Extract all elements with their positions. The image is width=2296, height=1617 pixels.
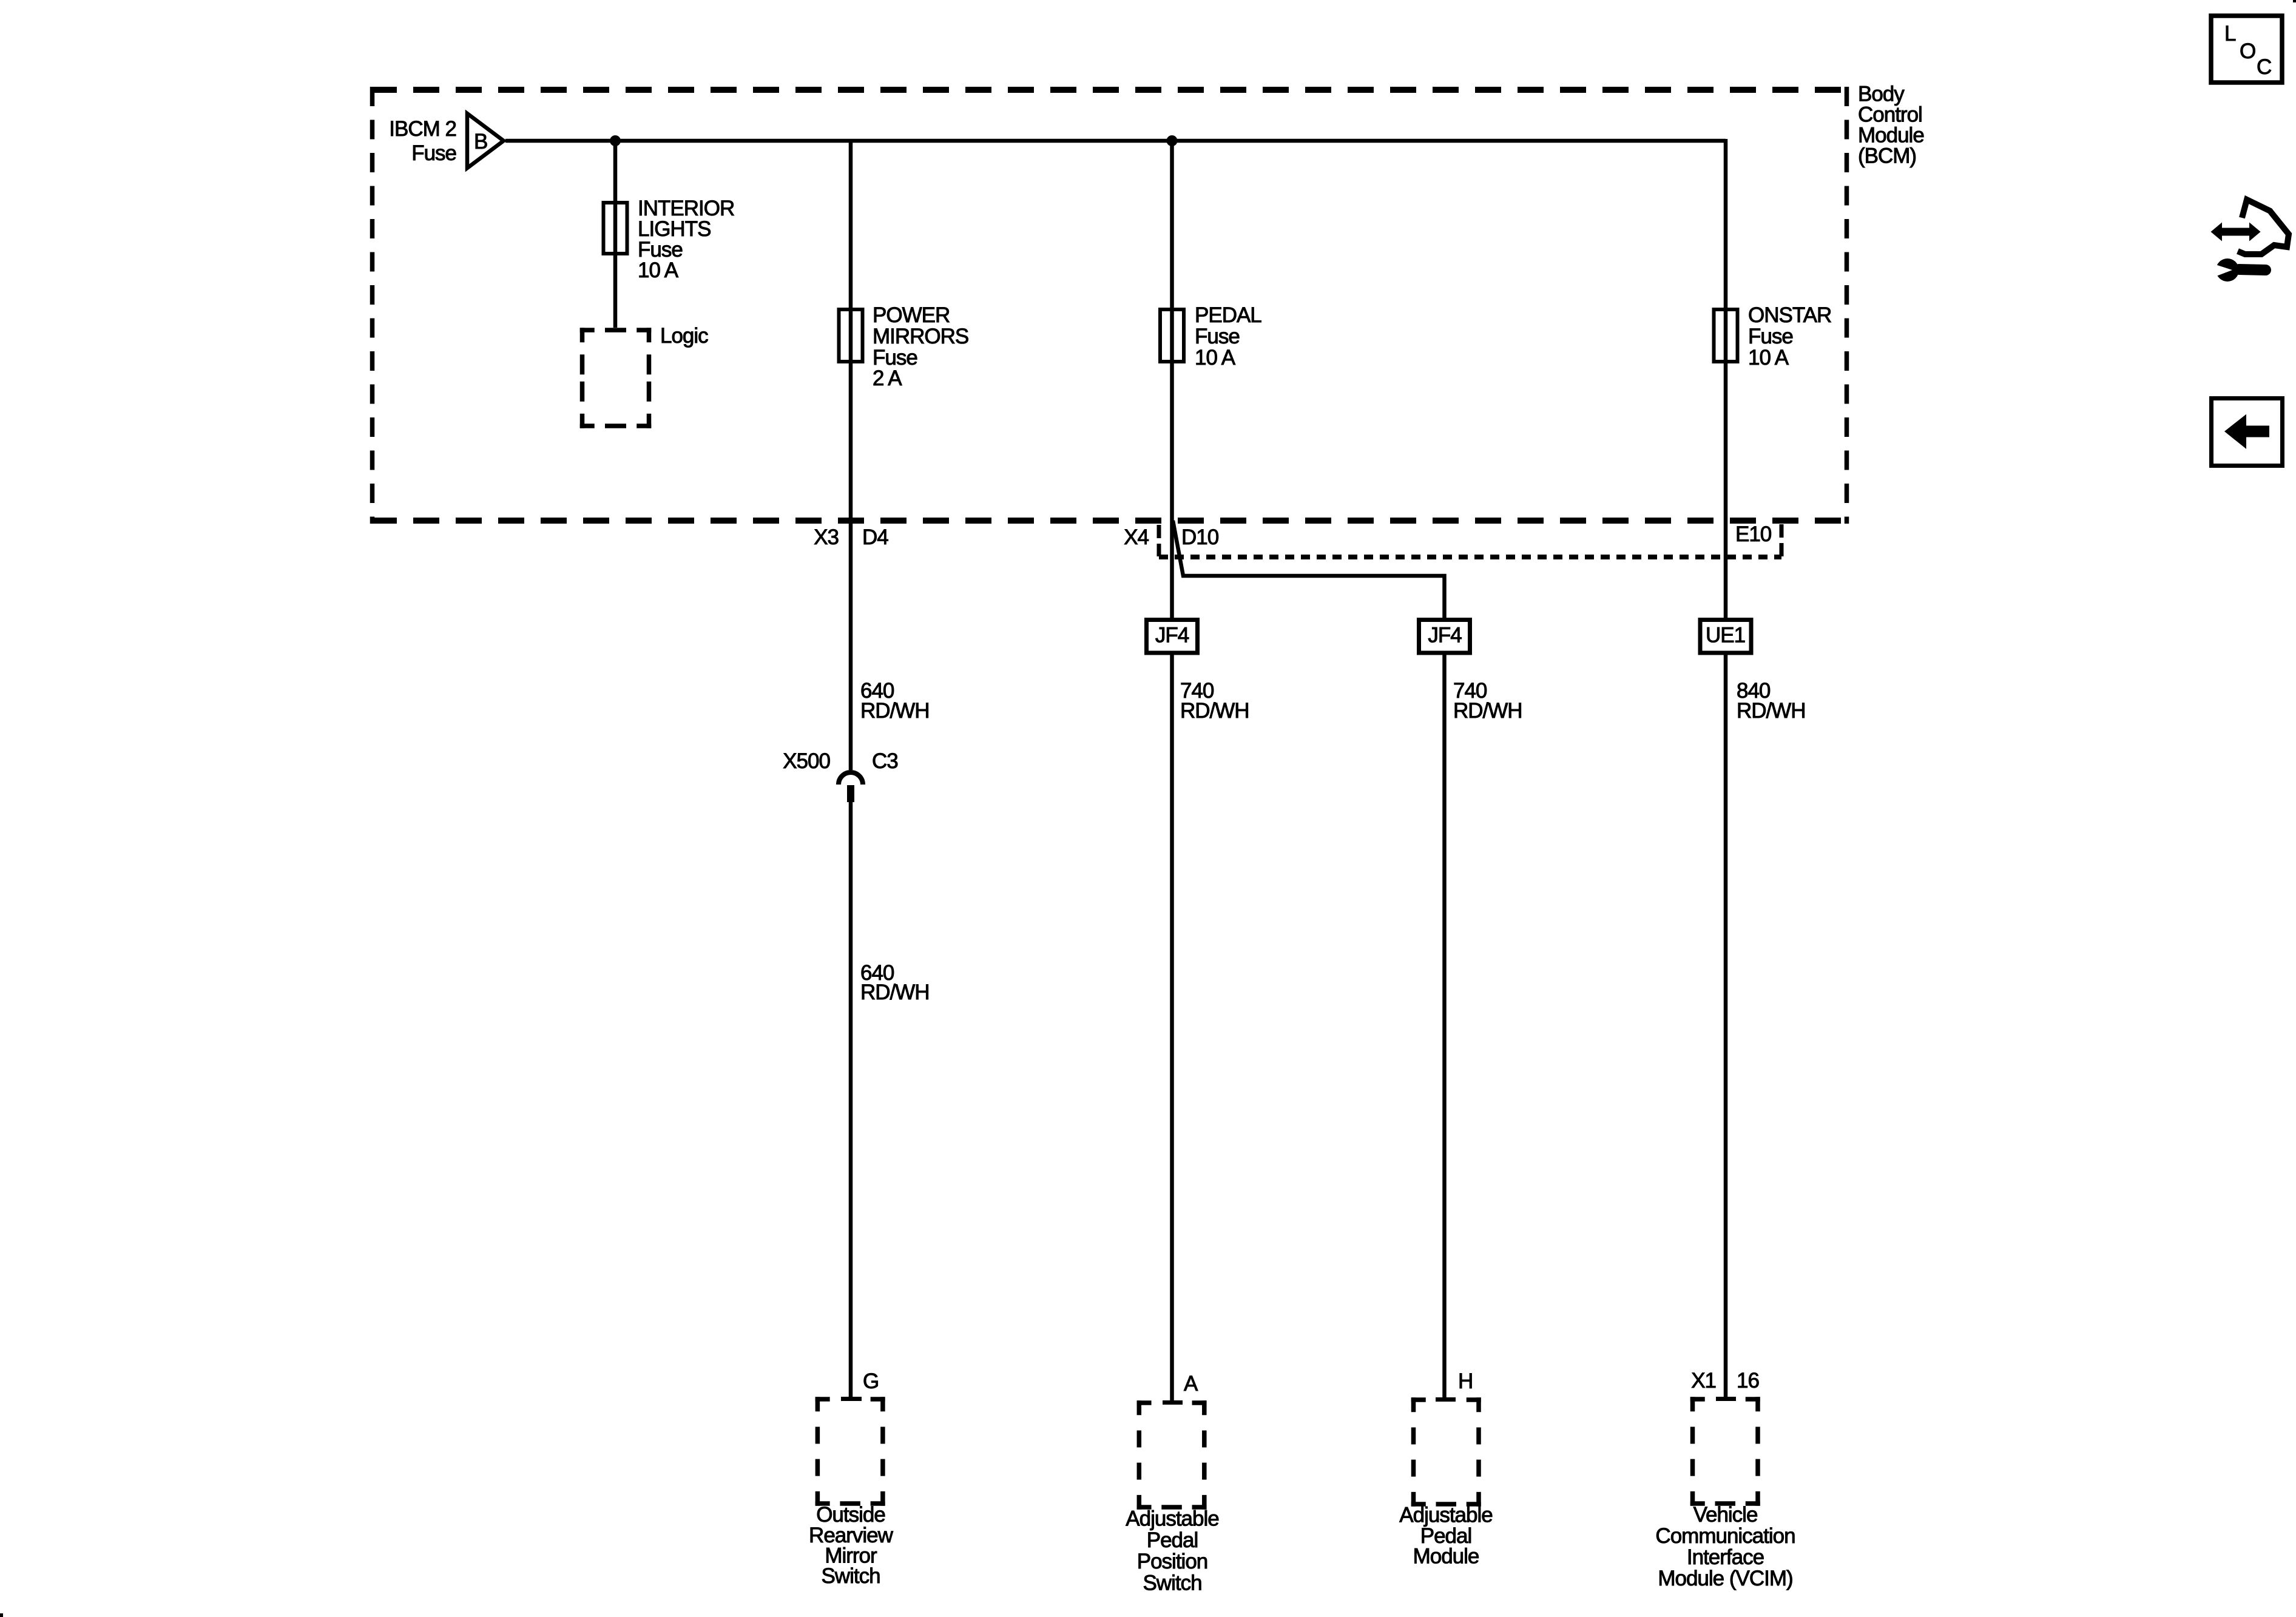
svg-text:RD/WH: RD/WH [1180, 699, 1249, 723]
svg-text:C: C [2257, 55, 2271, 79]
svg-text:(BCM): (BCM) [1858, 144, 1916, 168]
svg-text:10 A: 10 A [1195, 346, 1236, 370]
in-line connector X500 pin C3 [839, 772, 863, 785]
wire: interior lights branch [613, 141, 618, 328]
label INTERIOR LIGHTS Fuse 10 A [638, 197, 734, 282]
junction: pedal branch [1167, 135, 1178, 146]
svg-text:Vehicle: Vehicle [1693, 1503, 1758, 1527]
wire: X500 to mirror switch [849, 802, 853, 1399]
fuse INTERIOR LIGHTS 10 A [604, 203, 627, 254]
label IBCM 2 Fuse [389, 117, 456, 165]
svg-text:MIRRORS: MIRRORS [873, 325, 968, 348]
back arrow icon box [2212, 399, 2283, 466]
logic box (BCM internal logic, dashed) [580, 328, 652, 428]
svg-text:D4: D4 [862, 525, 888, 549]
svg-text:16: 16 [1737, 1369, 1759, 1393]
svg-text:Adjustable: Adjustable [1126, 1507, 1218, 1531]
svg-text:RD/WH: RD/WH [1453, 699, 1522, 723]
BCM outer dashed box [371, 90, 1850, 521]
svg-text:10 A: 10 A [1748, 346, 1789, 370]
svg-text:Switch: Switch [1143, 1571, 1201, 1595]
svg-text:IBCM 2: IBCM 2 [389, 117, 456, 141]
svg-text:Fuse: Fuse [411, 141, 456, 165]
label Logic [660, 324, 708, 348]
connector H + Adjustable Pedal Module [1458, 1369, 1473, 1393]
svg-text:H: H [1458, 1369, 1473, 1393]
connector G + Outside Rearview Mirror Switch [863, 1369, 879, 1393]
splice JF4 (pedal position switch leg) [1147, 620, 1198, 653]
svg-text:O: O [2240, 39, 2255, 63]
fuse ONSTAR 10 A [1714, 309, 1738, 362]
svg-text:PEDAL: PEDAL [1195, 303, 1261, 327]
svg-text:A: A [1184, 1372, 1198, 1396]
LOC icon box [2211, 16, 2282, 83]
svg-text:Communication: Communication [1655, 1524, 1795, 1548]
svg-text:10 A: 10 A [638, 258, 679, 282]
svg-text:JF4: JF4 [1155, 624, 1189, 647]
svg-text:Interface: Interface [1687, 1545, 1764, 1569]
svg-text:X1: X1 [1691, 1369, 1716, 1393]
svg-text:E10: E10 [1735, 522, 1772, 546]
svg-text:Logic: Logic [660, 324, 708, 348]
svg-text:RD/WH: RD/WH [860, 699, 930, 723]
wire label 740 RD/WH (module leg) [1453, 679, 1522, 723]
svg-text:X4: X4 [1124, 525, 1149, 549]
svg-text:RD/WH: RD/WH [860, 981, 930, 1004]
fuse POWER MIRRORS 2 A [839, 309, 863, 362]
splice UE1 [1700, 620, 1751, 653]
connector X3 / D4 labels [814, 525, 888, 549]
svg-text:ONSTAR: ONSTAR [1748, 303, 1831, 327]
wire label 840 RD/WH [1737, 679, 1806, 723]
connector X4 notch (dotted) [1159, 555, 1781, 559]
svg-text:Fuse: Fuse [1195, 325, 1240, 348]
splice JF4 (pedal module leg) [1419, 620, 1470, 653]
wire label 740 RD/WH [1180, 679, 1249, 723]
svg-text:2 A: 2 A [873, 366, 902, 390]
wire: main feed bus [505, 139, 1726, 143]
svg-text:Position: Position [1137, 1550, 1208, 1573]
svg-text:B: B [474, 130, 487, 154]
junction: interior lights branch [610, 135, 621, 146]
label POWER MIRRORS Fuse 2 A [873, 303, 968, 390]
wire: pedal branch vertical [1170, 141, 1174, 1402]
wire: branch to adjustable pedal module [1173, 521, 1445, 1399]
label PEDAL Fuse 10 A [1195, 303, 1261, 370]
svg-text:G: G [863, 1369, 879, 1393]
svg-text:RD/WH: RD/WH [1737, 699, 1806, 723]
svg-text:UE1: UE1 [1706, 624, 1745, 647]
service icon: adjustable pedal glyph with double arrow and wrench [2211, 200, 2289, 282]
svg-text:L: L [2224, 22, 2236, 46]
connector A + Adjustable Pedal Position Switch [1184, 1372, 1198, 1396]
svg-text:Module (VCIM): Module (VCIM) [1658, 1567, 1792, 1590]
label ONSTAR Fuse 10 A [1748, 303, 1831, 370]
wire: power mirrors branch (to X500) [849, 141, 853, 770]
wire label 640 RD/WH (lower) [860, 961, 930, 1004]
terminal tick at logic box [605, 328, 626, 333]
svg-text:Fuse: Fuse [1748, 325, 1793, 348]
svg-text:X3: X3 [814, 525, 839, 549]
svg-text:Module: Module [1413, 1545, 1479, 1568]
labels X4 / D10 [1124, 522, 1772, 549]
connector X1/16 + VCIM [1691, 1369, 1759, 1393]
wire label 640 RD/WH (upper) [860, 679, 930, 723]
svg-text:X500: X500 [783, 749, 830, 773]
svg-text:POWER: POWER [873, 303, 950, 327]
svg-text:Adjustable: Adjustable [1399, 1504, 1492, 1527]
fuse feed triangle B (IBCM 2 Fuse) [467, 113, 504, 168]
label Body Control Module (BCM) [1858, 83, 1924, 168]
svg-text:D10: D10 [1181, 525, 1219, 549]
svg-text:Pedal: Pedal [1147, 1528, 1198, 1552]
page corner marks [2293, 0, 2296, 2]
fuse PEDAL 10 A [1160, 309, 1184, 362]
svg-text:Switch: Switch [821, 1564, 880, 1588]
svg-text:JF4: JF4 [1428, 624, 1462, 647]
svg-text:C3: C3 [872, 749, 898, 773]
wire: onstar branch [1724, 139, 1728, 1399]
